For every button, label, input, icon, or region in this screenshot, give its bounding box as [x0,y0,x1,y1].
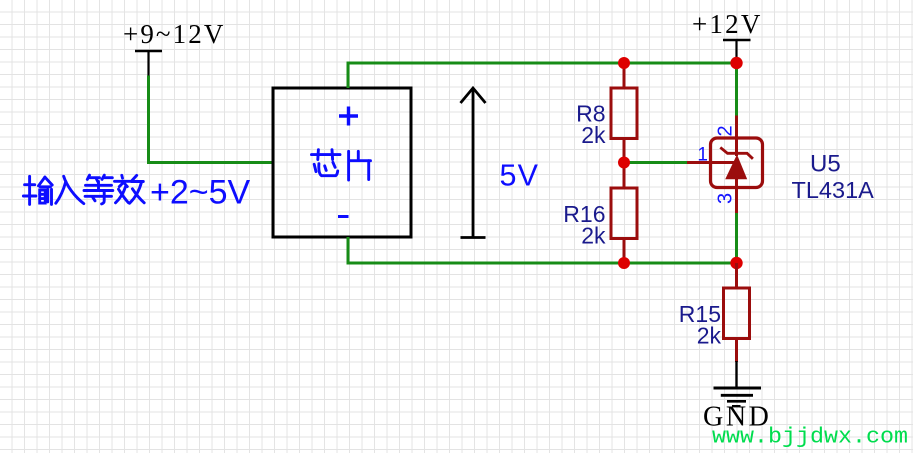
junction dot top R8 [618,57,630,69]
junction dot R8/R16 node [618,157,630,169]
resistor R8 pin top [623,63,626,88]
TL431 U5 ref pin 1 [687,161,737,164]
resistor R8 pin bottom [623,139,626,163]
TL431 U5 triangle [725,155,747,180]
resistor R16 pin bottom [623,239,626,264]
svg-text:2k: 2k [697,323,722,349]
svg-text:U5: U5 [810,151,841,178]
svg-text:TL431A: TL431A [792,177,875,203]
resistor R16 pin top [623,163,626,189]
TL431 U5 pin 2 stub (cathode top) [735,63,738,116]
TL431 U5 zener bar [720,147,753,158]
resistor R15 pin bottom [735,339,738,363]
svg-text:3: 3 [715,193,737,204]
svg-text:1: 1 [697,145,708,166]
power port +9~12V bar [135,50,162,53]
ground pin [735,361,737,388]
5V arrow [461,88,486,238]
wire: chip bottom rail [348,237,737,263]
wire: R8/R16 node to TL431 ref [624,161,687,164]
TL431 U5 anode pin 3 stub [735,179,738,213]
power port +12V bar [723,39,751,42]
svg-text:+2~5V: +2~5V [150,174,251,212]
TL431 U5 body [711,138,763,188]
junction dot bottom TL431/R15 [730,257,742,269]
等 [87,175,89,179]
label 输入等效+2~5V [23,175,144,204]
svg-text:+9~12V: +9~12V [123,19,225,49]
junction dot top +12V [730,57,742,69]
TL431 U5 internal cathode line [735,138,738,156]
输 [25,183,35,186]
svg-text:+12V: +12V [692,9,763,39]
svg-text:2k: 2k [581,122,606,148]
power port +9~12V pin [147,51,149,76]
resistor R15 pin top [735,263,738,288]
chip box 芯片 [273,88,411,237]
svg-text:2: 2 [715,125,737,136]
入 [64,176,84,203]
resistor R16 body [611,188,637,239]
效 [120,175,124,178]
resistor R8 body [611,88,637,139]
junction dot bottom R16 [618,257,630,269]
chip label 芯片 (drawn glyphs) [312,150,371,180]
svg-text:www.bjjdwx.com: www.bjjdwx.com [712,424,908,450]
wire: +9~12V down to chip left [149,76,274,163]
resistor R15 body [724,288,750,339]
svg-text:5V: 5V [500,159,540,193]
power port +12V pin [735,40,737,60]
svg-text:2k: 2k [581,223,606,249]
wire: chip top to +12V rail [348,63,737,88]
ground symbol [714,388,762,406]
chip minus symbol [338,215,349,218]
chip plus symbol [339,107,358,126]
